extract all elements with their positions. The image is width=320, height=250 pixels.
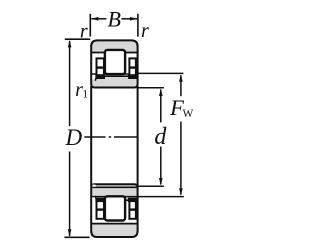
d extension line upper bbox=[137, 87, 164, 89]
svg-text:r: r bbox=[141, 20, 149, 42]
r leader / D top extension line bbox=[65, 38, 90, 40]
roller lower bbox=[105, 196, 125, 220]
roller upper bbox=[105, 50, 125, 74]
outer raceway line lower bbox=[91, 223, 137, 225]
bearing upper half section bbox=[91, 40, 137, 87]
svg-text:D: D bbox=[64, 125, 82, 150]
Fw extension line lower bbox=[139, 196, 184, 198]
d extension line lower bbox=[137, 185, 164, 187]
svg-text:1: 1 bbox=[82, 89, 88, 101]
cage left upper bbox=[95, 58, 105, 78]
D bottom extension line bbox=[64, 236, 89, 238]
inner ring corner sliver lower-left raceway side bbox=[92, 197, 95, 200]
outer ring lower (outline block) bbox=[91, 184, 137, 237]
outer raceway line upper bbox=[91, 52, 137, 54]
B extension line left bbox=[89, 14, 91, 37]
B extension line right bbox=[137, 14, 139, 37]
wire left face line between halves bbox=[90, 86, 92, 186]
outer ring upper (outline block) bbox=[91, 40, 137, 87]
wire right face line between halves bbox=[137, 86, 139, 186]
B dimension line with arrows bbox=[91, 17, 137, 21]
inner ring rounded shoulder upper-left bbox=[95, 76, 99, 81]
bearing lower half section bbox=[91, 184, 137, 237]
Fw tangent line upper bbox=[91, 73, 137, 75]
D dimension line with arrows bbox=[68, 40, 72, 237]
d dimension line with arrows bbox=[159, 89, 163, 186]
cage right upper bbox=[128, 58, 137, 78]
roller pocket upper bbox=[92, 53, 136, 76]
inner ring raceway line upper bbox=[97, 75, 137, 77]
svg-text:d: d bbox=[154, 124, 167, 150]
cage left lower bbox=[95, 198, 105, 219]
svg-text:B: B bbox=[107, 6, 120, 31]
inner ring corner sliver upper-left bbox=[92, 75, 95, 79]
bore line lower bbox=[91, 186, 137, 188]
Fw tangent line lower bbox=[91, 196, 137, 198]
inner ring raceway line lower bbox=[97, 199, 137, 201]
centerline axis dash-dot bbox=[84, 136, 137, 138]
roller pocket lower bbox=[92, 200, 136, 223]
inner ring rounded shoulder lower-left bbox=[95, 196, 99, 200]
Fw extension line upper bbox=[139, 72, 184, 74]
svg-text:W: W bbox=[182, 108, 193, 120]
bore corner sliver lower-left bbox=[92, 185, 95, 187]
cage right lower bbox=[128, 198, 137, 219]
Fw dimension line with arrows bbox=[179, 74, 183, 196]
